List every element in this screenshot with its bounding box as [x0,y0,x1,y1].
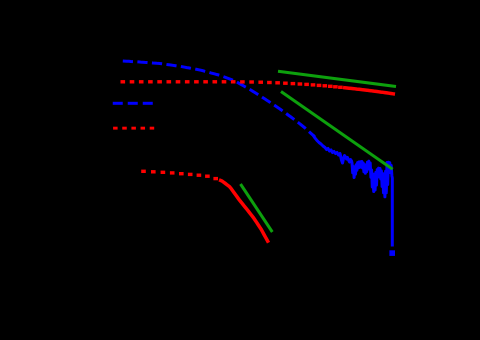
green fit line upper [278,71,396,86]
blue end dot [389,250,395,256]
blue noisy measured curve with vertical drop [313,135,392,247]
green fit line middle [281,92,393,170]
blue dashed model curve [123,61,315,137]
red upper curve solid tail [343,88,395,95]
red lower curve solid tail [219,180,269,243]
red dotted upper curve (dots) [121,80,343,89]
green fit line lower [241,184,273,232]
legend sample: red dotted [113,127,154,130]
legend sample: blue dashed [113,102,153,105]
red dotted lower curve (dots) [141,170,218,181]
